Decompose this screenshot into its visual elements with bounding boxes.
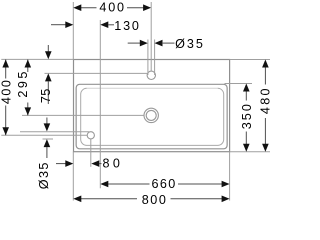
faucet hole on deck [147,71,155,79]
dimension 350 right: top arrow [243,84,250,92]
svg-text:660: 660 [152,177,176,191]
extension line: bowl reference at 130/660 [99,20,101,188]
extension line: top edge to left margin [1,58,73,60]
dimension 295 left: top arrow [25,60,32,68]
dimension 400 top: right arrow [143,4,151,11]
svg-text:75: 75 [39,89,53,103]
extension line: rim top to right [225,83,253,85]
dimension 400 top: line [80,7,97,9]
dimension Ø35 top: leader and arrows [128,42,140,44]
dimension 75: lower up arrow and line [45,73,52,81]
extension line: side hole bottom tangent [43,138,54,140]
svg-text:480: 480 [259,89,273,115]
svg-text:350: 350 [240,104,254,129]
dimension 75: upper line and down arrow [47,45,49,53]
dimension 480 right: top arrow [262,60,269,68]
dimension 480 right: bottom arrow [262,144,269,152]
dimension 80 bottom: right arrow [91,160,99,167]
dimension 130: left leader and arrow [51,24,66,26]
extension line: right edge down [229,152,231,201]
svg-text:Ø35: Ø35 [175,37,203,51]
extension line: top edge to right margin [230,59,270,61]
dimension Ø35 left: lower up arrow [44,139,51,147]
svg-text:295: 295 [16,72,30,98]
dimension 80 bottom: left leader and arrow [56,163,66,165]
extension line: side hole centerline down [90,139,92,167]
dimension 480 right: line [264,62,266,85]
extension line: bottom edge to right margin [230,151,270,153]
dimension 295 left: line [27,60,29,73]
drain outer circle [144,108,158,122]
dimension 800: right arrow [222,196,230,203]
basin rim (outer bowl edge) [76,84,227,149]
svg-text:130: 130 [114,19,139,33]
dimension 400 left: bottom arrow [2,127,9,135]
svg-text:400: 400 [99,1,124,15]
dimension 800: left arrow [73,196,81,203]
dimension 800: line [81,198,138,200]
extension line: side hole center to left [1,134,87,136]
svg-text:Ø35: Ø35 [37,163,51,190]
washbasin outer body 800x480 [74,60,230,152]
dimension 400 left: line [5,60,7,79]
dimension 350 right: line [245,86,247,101]
svg-text:400: 400 [0,80,13,104]
extension line: faucet hole centerline up [150,2,152,71]
extension line: faucet hole right tangent [154,40,156,76]
extension line: side hole top tangent [20,131,89,133]
dimension 400 top: left arrow [73,4,81,11]
bowl inner floor outline [87,87,218,89]
extension line: faucet hole left tangent [147,40,149,76]
extension line: drain center to left [22,114,144,116]
extension line: left edge up [72,2,74,60]
dimension 660: left arrow [100,181,108,188]
extension line: left edge down [72,152,74,201]
dimension 660: line [108,183,150,185]
dimension 130: right arrow and leader [100,21,108,28]
svg-text:800: 800 [142,193,166,207]
dimension 350 right: bottom arrow [243,144,250,152]
bowl floor sides and front [81,88,224,145]
dimension 660: right arrow [222,181,230,188]
dimension Ø35 left: upper line and down arrow [46,118,48,125]
dimension 295 left: bottom arrow [25,107,32,115]
side tap hole (Ø35) [87,132,94,139]
dimension 400 left: top arrow [2,60,9,68]
extension line: faucet hole center to left [45,72,148,74]
drain inner circle [146,110,156,120]
